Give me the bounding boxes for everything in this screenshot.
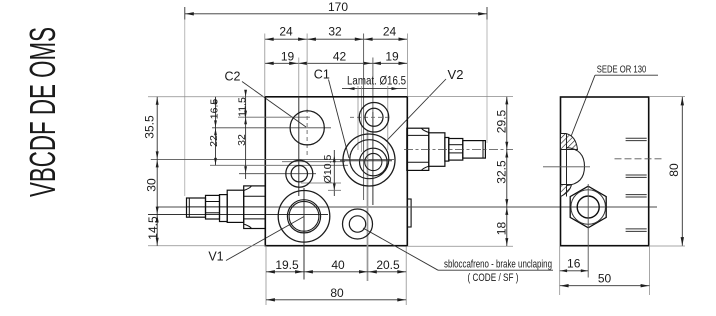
svg-text:20.5: 20.5 bbox=[376, 258, 400, 272]
svg-text:32: 32 bbox=[236, 134, 248, 146]
hole V1 bbox=[278, 191, 330, 243]
svg-text:C2: C2 bbox=[225, 70, 241, 84]
svg-text:16: 16 bbox=[567, 257, 581, 271]
vertical centerlines front view bbox=[299, 97, 391, 282]
svg-text:14.5: 14.5 bbox=[146, 216, 160, 240]
side dimension 80 bbox=[649, 97, 685, 247]
svg-text:42: 42 bbox=[333, 49, 347, 63]
horizontal feature and axis lines bbox=[148, 97, 657, 247]
label SEDE OR 130 with leader bbox=[570, 65, 658, 139]
svg-text:sbloccafreno - brake unclaping: sbloccafreno - brake unclaping bbox=[444, 259, 552, 271]
side dimensions 16 and 50 bbox=[560, 246, 650, 295]
svg-text:32.5: 32.5 bbox=[494, 160, 508, 184]
svg-text:29.5: 29.5 bbox=[494, 109, 508, 133]
title text VBCDF DE OMS bbox=[22, 27, 63, 197]
svg-text:Ø10.5: Ø10.5 bbox=[322, 155, 334, 184]
svg-text:C1: C1 bbox=[314, 68, 330, 82]
dimensions 11.5 and 32 bbox=[236, 90, 249, 179]
svg-text:80: 80 bbox=[330, 286, 344, 300]
front view valve body bbox=[265, 97, 411, 246]
dimension row 24 32 24 bbox=[265, 25, 408, 41]
svg-text:24: 24 bbox=[383, 25, 397, 39]
hole C2 bbox=[290, 111, 324, 145]
svg-text:22: 22 bbox=[208, 135, 220, 147]
svg-text:80: 80 bbox=[667, 163, 681, 177]
svg-text:Lamat. Ø16.5: Lamat. Ø16.5 bbox=[347, 75, 406, 87]
svg-text:( CODE / SF ): ( CODE / SF ) bbox=[468, 272, 519, 284]
svg-text:32: 32 bbox=[328, 25, 342, 39]
svg-text:170: 170 bbox=[328, 0, 348, 14]
label V2 with leader bbox=[387, 67, 464, 141]
dimension row 19 42 19 bbox=[265, 49, 408, 65]
upper small hole bbox=[359, 103, 389, 133]
brake release port hole bbox=[343, 209, 373, 239]
svg-text:19.5: 19.5 bbox=[275, 258, 299, 272]
dimensions 16.5 and 22 bbox=[208, 97, 221, 166]
right port fitting bbox=[404, 128, 513, 170]
extension lines top bbox=[265, 34, 408, 201]
label C1 with leader bbox=[314, 68, 349, 159]
svg-text:SEDE OR 130: SEDE OR 130 bbox=[597, 65, 647, 76]
svg-text:50: 50 bbox=[598, 272, 612, 286]
svg-text:VBCDF DE OMS: VBCDF DE OMS bbox=[22, 27, 63, 197]
dimension diameter 10.5 bbox=[322, 150, 341, 196]
left port fitting bbox=[187, 186, 266, 229]
svg-text:24: 24 bbox=[279, 25, 293, 39]
middle-left hole bbox=[286, 160, 313, 187]
left dimensions 35.5 30 14.5 bbox=[143, 97, 161, 246]
svg-text:11.5: 11.5 bbox=[236, 97, 248, 117]
side view valve body bbox=[561, 97, 649, 246]
hole V2 with counterbore C1 bbox=[340, 134, 395, 186]
svg-text:V2: V2 bbox=[448, 67, 464, 82]
svg-text:35.5: 35.5 bbox=[143, 115, 157, 139]
dimension 170 top bbox=[185, 0, 487, 196]
svg-text:19: 19 bbox=[281, 49, 295, 63]
label V1 with leader bbox=[208, 217, 304, 264]
svg-text:18: 18 bbox=[494, 222, 508, 236]
thread depth marks side view bbox=[615, 138, 664, 231]
O-ring seat recess section bbox=[543, 134, 590, 197]
svg-text:V1: V1 bbox=[208, 250, 223, 264]
right dimensions 29.5 32.5 18 bbox=[407, 97, 513, 247]
label sbloccafreno brake unclaping bbox=[363, 228, 553, 284]
dimension Lamat counterbore 16.5 bbox=[342, 75, 407, 152]
svg-text:40: 40 bbox=[331, 258, 345, 272]
svg-text:19: 19 bbox=[385, 49, 399, 63]
bottom dimensions 19.5 40 20.5 and 80 bbox=[266, 246, 406, 305]
svg-text:16.5: 16.5 bbox=[208, 99, 220, 120]
svg-text:30: 30 bbox=[145, 178, 159, 192]
label C2 with leader bbox=[225, 70, 306, 127]
hex plug side view bbox=[570, 184, 606, 278]
